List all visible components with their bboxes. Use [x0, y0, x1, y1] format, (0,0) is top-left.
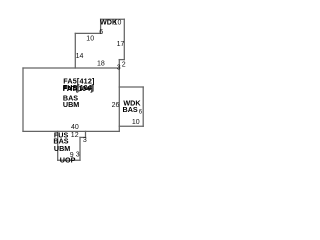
- svg-text:26: 26: [112, 102, 120, 109]
- wall: deck WDK bottom edge (dim 2): [119, 59, 124, 61]
- svg-text:10: 10: [86, 36, 94, 43]
- svg-text:3: 3: [76, 152, 80, 159]
- svg-text:2: 2: [122, 62, 126, 69]
- svg-text:14: 14: [76, 53, 84, 60]
- wall: main building top edge (dim 18): [23, 67, 119, 69]
- svg-text:FHS: FHS: [63, 84, 78, 93]
- wall: right box WDK/BAS top edge: [119, 86, 143, 88]
- svg-text:3: 3: [117, 64, 121, 71]
- wall: lower section step vertical (dim 3): [85, 131, 87, 137]
- wall: main building left edge: [22, 68, 24, 131]
- svg-text:18: 18: [97, 61, 105, 68]
- wall: main building bottom edge (dim 40): [23, 130, 119, 132]
- svg-text:10: 10: [132, 119, 140, 126]
- svg-text:17: 17: [117, 41, 125, 48]
- svg-text:BAS: BAS: [123, 105, 138, 114]
- wall: right box WDK/BAS right edge (dim 6): [142, 87, 144, 126]
- wall: deck WDK left edge (dim 6): [100, 19, 102, 33]
- svg-text:6: 6: [99, 29, 103, 36]
- wall: lower section right edge: [79, 137, 81, 160]
- wall: right box WDK/BAS bottom edge (dim 10): [119, 125, 143, 127]
- wall: deck WDK top edge: [101, 18, 125, 20]
- wall: lower section bottom edge (UOP, dim 9): [58, 159, 80, 161]
- svg-text:12: 12: [71, 132, 79, 139]
- svg-text:3: 3: [83, 137, 87, 144]
- wall: upper step horizontal (dim 10): [75, 32, 100, 34]
- svg-text:UBM: UBM: [63, 100, 79, 109]
- wall: upper step vertical (dim 14): [74, 33, 76, 68]
- svg-text:40: 40: [71, 124, 79, 131]
- wall: lower section left edge (dim 12 top): [57, 131, 59, 160]
- wall: main building right edge (dim 26 / 3): [118, 60, 120, 132]
- wall: lower section step horizontal: [80, 136, 86, 138]
- wall: deck WDK right edge (dim 17): [123, 19, 125, 59]
- svg-text:10: 10: [114, 20, 122, 27]
- svg-text:UOP: UOP: [60, 156, 76, 165]
- svg-text:UBM: UBM: [54, 144, 70, 153]
